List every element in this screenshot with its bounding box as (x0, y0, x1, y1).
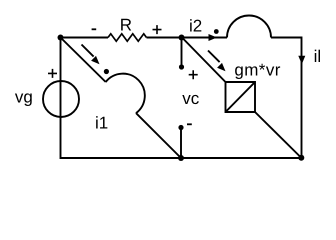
svg-text:il: il (314, 47, 322, 66)
svg-text:vg: vg (15, 88, 33, 107)
svg-text:gm*vr: gm*vr (234, 61, 280, 80)
svg-text:R: R (120, 16, 132, 35)
svg-text:i1: i1 (95, 114, 108, 133)
svg-text:i2: i2 (189, 17, 202, 36)
svg-text:vc: vc (182, 89, 200, 108)
